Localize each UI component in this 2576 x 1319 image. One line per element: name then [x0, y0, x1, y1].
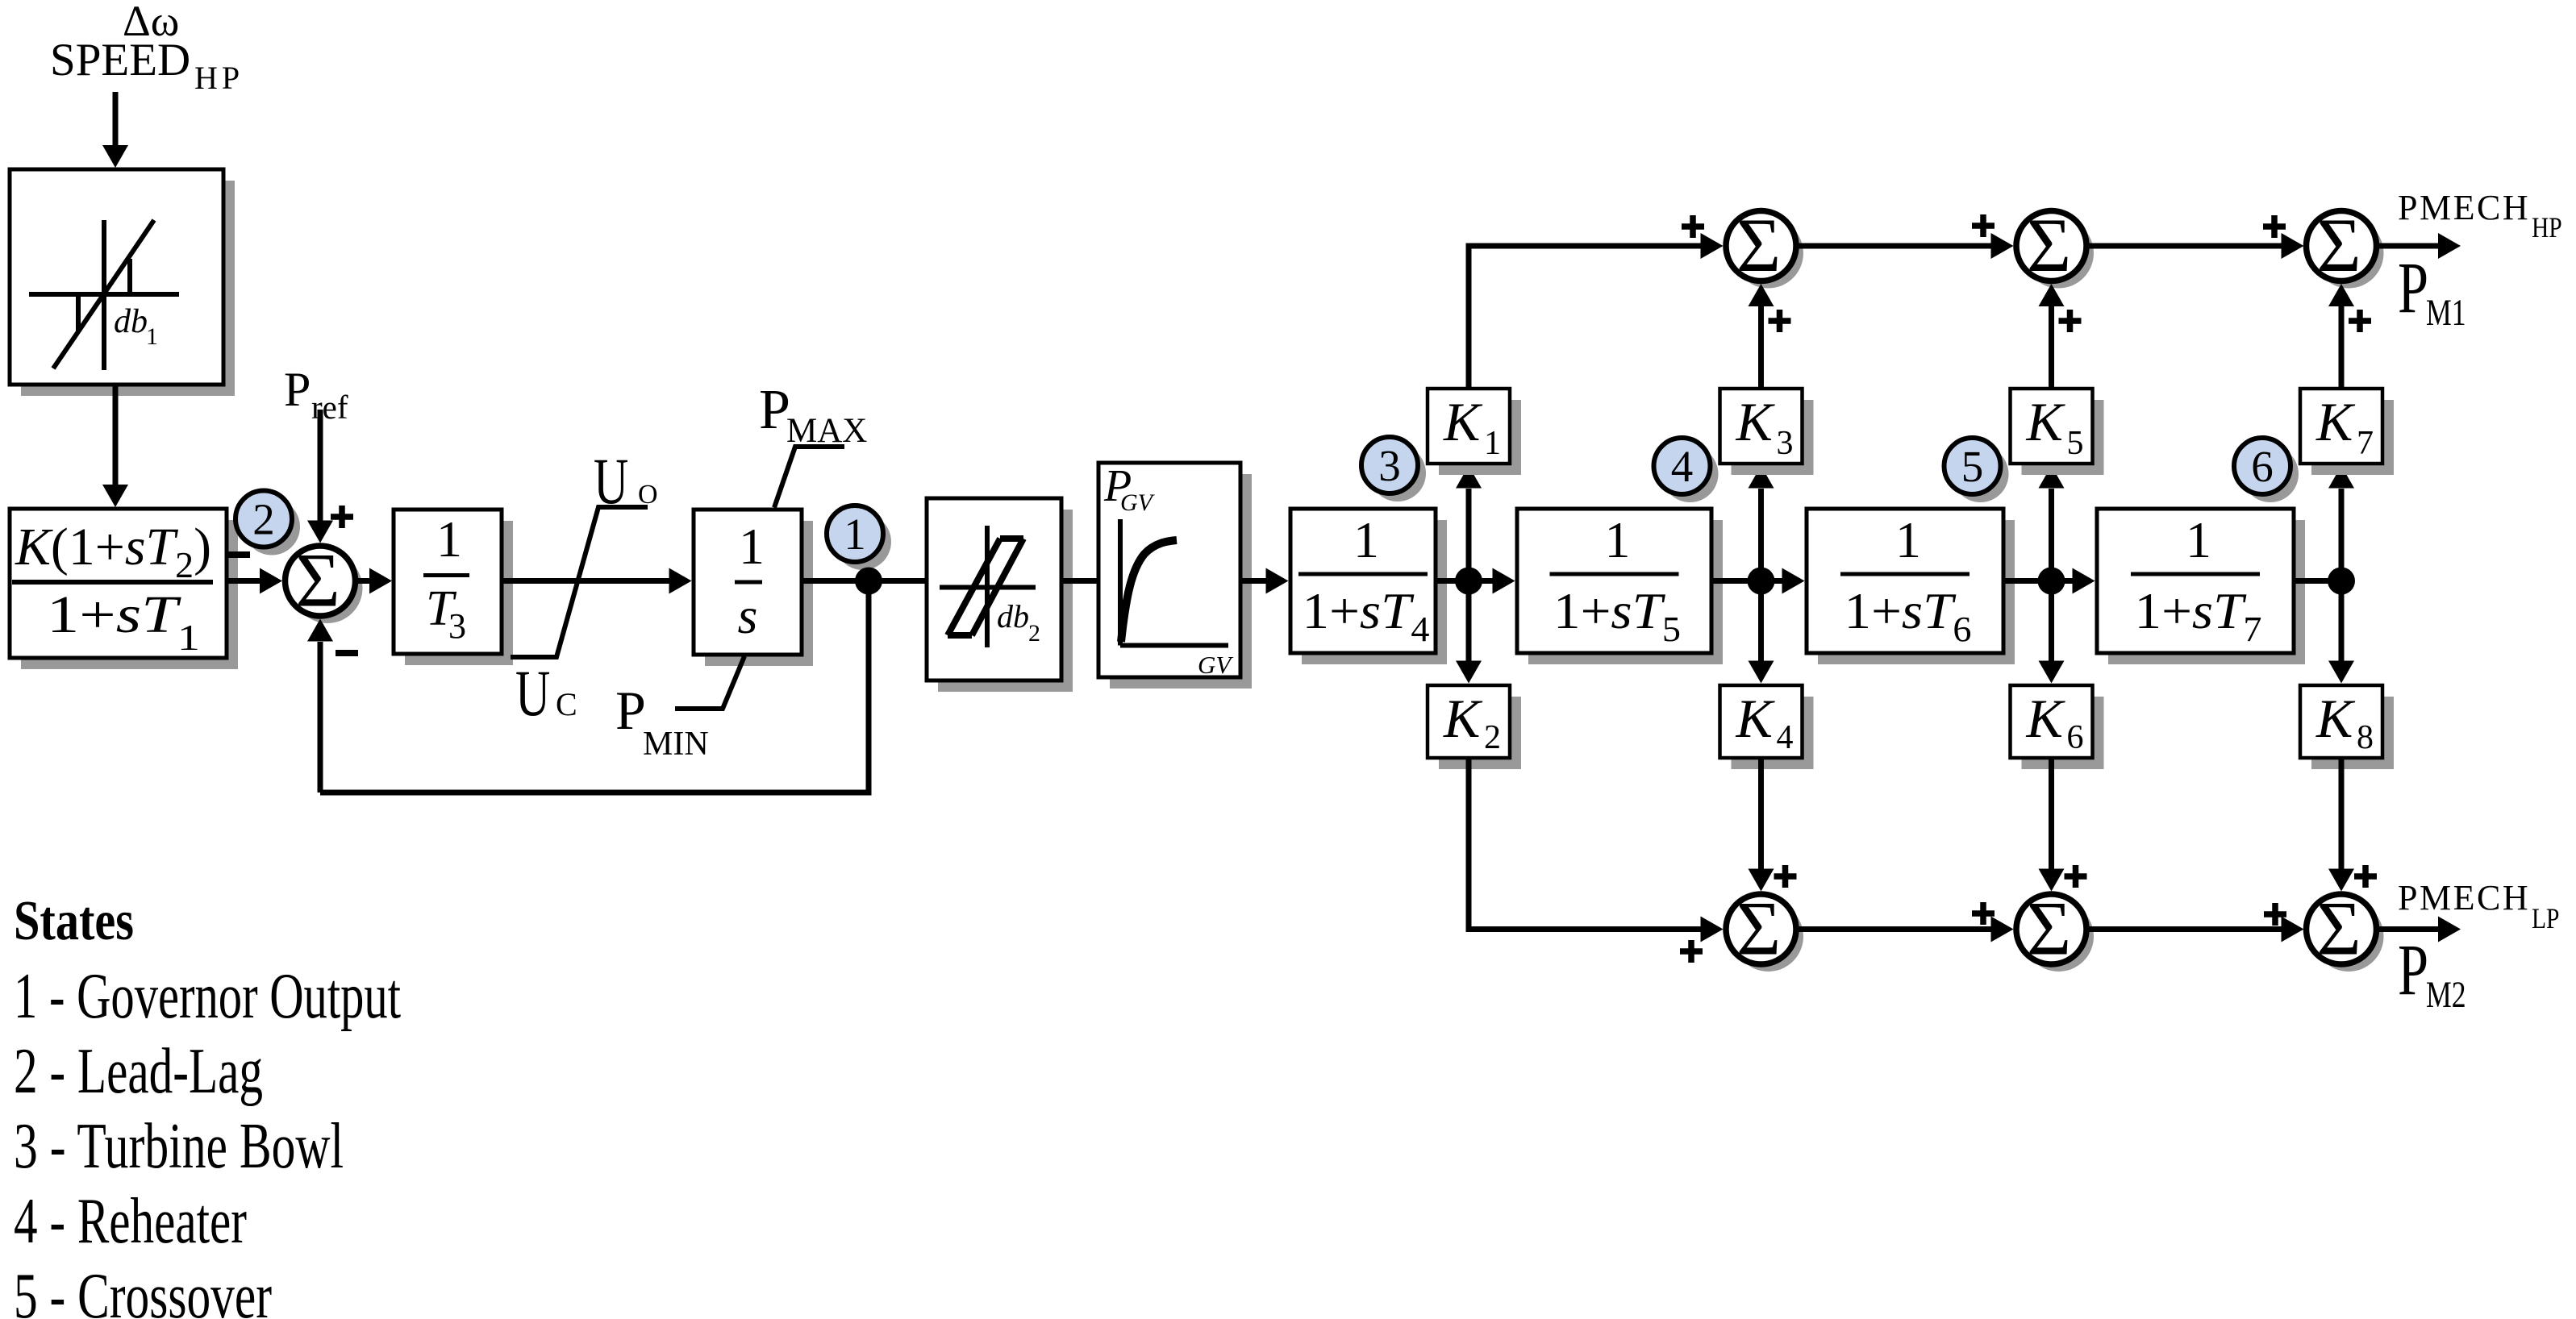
- svg-text:P: P: [2398, 248, 2428, 328]
- svg-text:4: 4: [1671, 442, 1694, 491]
- svg-text:1: 1: [1895, 511, 1921, 568]
- svg-text:7: 7: [2357, 425, 2374, 462]
- svg-text:HP: HP: [194, 60, 244, 96]
- svg-text:1+sT5: 1+sT5: [1553, 582, 1681, 649]
- svg-text:K: K: [1736, 391, 1776, 452]
- svg-text:PMECH: PMECH: [2398, 878, 2530, 917]
- svg-text:SPEED: SPEED: [50, 35, 190, 85]
- svg-text:Σ: Σ: [2316, 886, 2361, 972]
- svg-text:MIN: MIN: [643, 726, 709, 763]
- svg-text:Σ: Σ: [1736, 886, 1781, 972]
- svg-text:K: K: [2315, 688, 2356, 749]
- svg-text:1 - Governor Output: 1 - Governor Output: [14, 961, 401, 1032]
- svg-text:P: P: [615, 680, 646, 741]
- svg-text:4 - Reheater: 4 - Reheater: [14, 1186, 247, 1257]
- svg-text:1: 1: [436, 510, 462, 568]
- svg-text:db: db: [114, 303, 148, 340]
- svg-text:K: K: [1443, 688, 1483, 749]
- svg-text:1: 1: [2186, 511, 2211, 568]
- svg-text:U: U: [515, 656, 550, 730]
- svg-text:1+sT7: 1+sT7: [2135, 582, 2262, 649]
- svg-text:GV: GV: [1120, 489, 1156, 516]
- svg-text:db: db: [997, 598, 1029, 635]
- svg-text:3: 3: [1378, 441, 1401, 490]
- svg-text:5: 5: [1961, 442, 1984, 491]
- svg-text:2 - Lead-Lag: 2 - Lead-Lag: [14, 1036, 263, 1107]
- svg-text:PMECH: PMECH: [2398, 188, 2530, 227]
- svg-text:LP: LP: [2532, 903, 2559, 934]
- svg-text:2: 2: [1484, 719, 1501, 756]
- svg-text:8: 8: [2357, 719, 2374, 756]
- svg-text:s: s: [738, 587, 758, 644]
- svg-text:3: 3: [448, 606, 466, 646]
- svg-text:3: 3: [1777, 425, 1794, 462]
- svg-text:5: 5: [2067, 425, 2084, 462]
- svg-text:3 - Turbine Bowl: 3 - Turbine Bowl: [14, 1111, 344, 1182]
- svg-text:5 - Crossover: 5 - Crossover: [14, 1261, 272, 1319]
- svg-text:Σ: Σ: [1736, 202, 1781, 288]
- svg-text:P: P: [284, 363, 311, 416]
- svg-text:1: 1: [1353, 511, 1379, 568]
- svg-text:K: K: [1736, 688, 1776, 749]
- svg-text:Σ: Σ: [2027, 202, 2071, 288]
- svg-text:MAX: MAX: [786, 412, 867, 450]
- svg-text:1+sT4: 1+sT4: [1303, 582, 1430, 649]
- svg-text:K: K: [2026, 688, 2066, 749]
- svg-text:Σ: Σ: [2316, 202, 2361, 288]
- svg-text:2: 2: [1028, 620, 1040, 647]
- svg-text:4: 4: [1777, 719, 1794, 756]
- svg-text:1: 1: [739, 518, 765, 575]
- svg-text:1: 1: [844, 510, 866, 559]
- svg-text:U: U: [594, 444, 628, 518]
- svg-text:M1: M1: [2426, 292, 2466, 334]
- svg-text:1+sT6: 1+sT6: [1844, 582, 1972, 649]
- svg-text:K: K: [1443, 391, 1483, 452]
- svg-text:1: 1: [146, 323, 158, 350]
- svg-text:M2: M2: [2426, 974, 2466, 1016]
- svg-text:Σ: Σ: [2027, 886, 2071, 972]
- svg-text:2: 2: [252, 495, 275, 544]
- svg-text:ref: ref: [311, 389, 348, 426]
- svg-text:6: 6: [2251, 442, 2274, 491]
- svg-text:HP: HP: [2532, 212, 2562, 243]
- svg-text:GV: GV: [1198, 651, 1233, 679]
- svg-text:C: C: [556, 686, 577, 722]
- svg-text:K: K: [2026, 391, 2066, 452]
- svg-text:1: 1: [1484, 425, 1501, 462]
- svg-text:Σ: Σ: [295, 538, 340, 623]
- svg-text:P: P: [2398, 930, 2428, 1010]
- svg-text:States: States: [14, 890, 134, 952]
- svg-text:O: O: [638, 480, 658, 510]
- svg-text:K: K: [2315, 391, 2356, 452]
- svg-text:6: 6: [2067, 719, 2084, 756]
- svg-text:1: 1: [1605, 511, 1631, 568]
